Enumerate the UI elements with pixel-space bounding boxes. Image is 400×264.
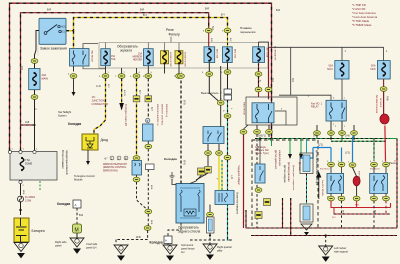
svg-text:Right quarter: Right quarter (217, 245, 232, 249)
svg-text:Передний габарит: Передний габарит (237, 165, 240, 186)
svg-text:A: A (75, 203, 77, 207)
svg-text:RELAY: RELAY (311, 106, 319, 109)
svg-text:B-R: B-R (271, 78, 274, 82)
svg-text:Fan NO.2: Fan NO.2 (320, 169, 330, 171)
svg-text:panel: panel (55, 244, 62, 248)
svg-text:Замок зажигания: Замок зажигания (40, 46, 67, 50)
svg-text:B-R: B-R (21, 66, 24, 70)
svg-text:Fan NO.3: Fan NO.3 (370, 169, 380, 171)
svg-text:W-B: W-B (257, 146, 259, 151)
svg-text:MIRROR RH): MIRROR RH) (103, 169, 118, 172)
svg-text:G: G (222, 110, 224, 112)
svg-text:40A: 40A (42, 73, 47, 77)
svg-text:B-R: B-R (276, 9, 280, 12)
svg-text:Автоматическая: Автоматическая (375, 95, 378, 114)
svg-text:Колодка: Колодка (68, 122, 81, 126)
svg-text:NOISE FILTER: NOISE FILTER (169, 52, 171, 67)
svg-text:2.0W: 2.0W (25, 199, 32, 203)
svg-text:G-W: G-W (345, 136, 351, 138)
svg-text:Instrument: Instrument (181, 243, 194, 247)
svg-text:MAIN RELAY: MAIN RELAY (243, 102, 246, 116)
svg-text:MIRROR LH): MIRROR LH) (165, 104, 167, 117)
svg-text:Module: Module (74, 178, 83, 182)
svg-text:Cowl side: Cowl side (86, 242, 98, 246)
svg-text:B-Y: B-Y (229, 38, 231, 42)
svg-text:MAIN: MAIN (42, 77, 49, 81)
svg-text:Диод: Диод (101, 138, 109, 142)
svg-text:IG1: IG1 (61, 31, 66, 34)
svg-text:зеркала: зеркала (120, 49, 132, 53)
svg-text:10A: 10A (138, 53, 143, 56)
svg-text:LH: LH (181, 250, 184, 254)
svg-text:B-R: B-R (211, 26, 214, 30)
svg-text:MIRROR HEATER LH: MIRROR HEATER LH (156, 104, 159, 126)
svg-text:15A: 15A (111, 55, 116, 58)
svg-text:B-R: B-R (9, 66, 12, 70)
svg-text:*6 TMMK Made: *6 TMMK Made (352, 23, 372, 27)
svg-text:TAIL: TAIL (111, 58, 116, 61)
svg-text:B-R: B-R (210, 38, 212, 42)
svg-text:Датчики давления: Датчики давления (287, 162, 289, 182)
svg-text:G-B(*1): G-B(*1) (258, 136, 266, 138)
svg-text:B-R: B-R (140, 9, 144, 12)
svg-text:•1*: •1* (104, 157, 107, 161)
svg-text:B-Y: B-Y (221, 14, 225, 17)
svg-text:Датчик давл. хладагента: Датчик давл. хладагента (292, 165, 294, 191)
svg-text:Колодка: Колодка (150, 241, 163, 245)
svg-text:Датчик включения вентилятора: Датчик включения вентилятора (315, 150, 318, 186)
svg-text:B-Y: B-Y (150, 107, 153, 111)
svg-text:panel LH: panel LH (86, 246, 97, 250)
svg-text:Right side: Right side (55, 240, 67, 244)
svg-text:Реле: Реле (166, 28, 174, 32)
svg-text:DOME: DOME (25, 163, 33, 166)
svg-text:W-B: W-B (150, 185, 152, 190)
svg-text:Sta Taillight: Sta Taillight (58, 110, 71, 114)
svg-text:CDS: CDS (370, 68, 376, 71)
svg-text:ALTERNATOR: ALTERNATOR (274, 46, 277, 61)
svg-text:W-B: W-B (374, 210, 376, 215)
svg-text:Выключатель: Выключатель (201, 91, 219, 95)
svg-text:AM1 40A: AM1 40A (234, 49, 237, 59)
svg-text:System: System (58, 114, 67, 118)
svg-text:W-B: W-B (136, 236, 141, 239)
svg-text:CONNECTOR: CONNECTOR (92, 102, 109, 106)
svg-text:MOTOR: MOTOR (358, 171, 360, 180)
svg-text:антенна: антенна (379, 98, 382, 108)
svg-text:A: A (165, 239, 167, 243)
svg-text:B-R: B-R (79, 214, 83, 217)
svg-text:pillar: pillar (217, 249, 223, 253)
svg-text:MIRROR: MIRROR (133, 57, 143, 59)
svg-text:W-B: W-B (150, 220, 152, 225)
svg-text:ACC: ACC (61, 26, 66, 29)
svg-text:B-Y: B-Y (107, 84, 109, 88)
svg-text:B-Y/G: B-Y/G (123, 90, 125, 96)
svg-text:L-B: L-B (230, 175, 233, 179)
svg-text:Fan M/V RELAY: Fan M/V RELAY (321, 180, 324, 196)
svg-text:TAIL RELAY: TAIL RELAY (91, 50, 94, 63)
svg-text:(Press. Type): (Press. Type) (255, 152, 269, 155)
svg-text:B-R: B-R (47, 9, 51, 12)
svg-text:L(*1): L(*1) (345, 153, 350, 155)
svg-text:To Engine Control: To Engine Control (74, 174, 95, 178)
svg-text:C-D: C-D (96, 84, 101, 88)
svg-text:(REMOTE CONTROL: (REMOTE CONTROL (161, 104, 163, 126)
svg-text:FL MAIN: FL MAIN (25, 195, 35, 199)
svg-text:M: M (75, 228, 79, 234)
svg-text:side support: side support (334, 250, 348, 254)
svg-text:предохранителей: предохранителей (65, 150, 69, 175)
svg-text:To Engine Room J/B: To Engine Room J/B (124, 104, 127, 126)
svg-text:panel brace: panel brace (181, 247, 195, 251)
svg-text:перемычки: перемычки (240, 30, 256, 34)
svg-text:Фильтр: Фильтр (169, 33, 181, 37)
svg-text:Указатель поворота: Указатель поворота (236, 192, 239, 215)
svg-text:W-B: W-B (342, 210, 344, 215)
svg-text:AM2 30A: AM2 30A (216, 49, 219, 59)
svg-text:Датчик нагрузки: Датчик нагрузки (283, 165, 286, 183)
svg-text:R: R (393, 160, 396, 162)
svg-text:G-W: G-W (313, 136, 319, 138)
svg-text:NOISE FILTER: NOISE FILTER (184, 52, 186, 67)
svg-text:L(*1): L(*1) (318, 145, 323, 147)
svg-text:B-Y: B-Y (143, 14, 147, 17)
svg-text:Left rocker: Left rocker (334, 246, 346, 250)
svg-text:B-Y: B-Y (138, 90, 141, 94)
svg-text:Колодка: Колодка (164, 157, 177, 161)
svg-text:Батарея: Батарея (32, 229, 45, 233)
svg-text:кондиционера: кондиционера (278, 150, 281, 166)
svg-text:Датчик давления: Датчик давления (274, 150, 277, 170)
svg-text:R-Y: R-Y (332, 217, 336, 219)
svg-text:Колодка: Колодка (57, 202, 70, 206)
svg-text:R-B: R-B (355, 205, 359, 207)
svg-text:Блок плавких: Блок плавких (61, 150, 65, 169)
svg-text:B-R: B-R (205, 8, 209, 11)
svg-text:B-R: B-R (291, 78, 294, 82)
svg-text:W-B: W-B (183, 160, 186, 165)
svg-text:G-B: G-B (25, 121, 30, 124)
svg-text:Задний габарит: Задний габарит (242, 210, 245, 226)
svg-text:MCU: MCU (327, 68, 333, 71)
svg-text:W-B: W-B (22, 190, 24, 195)
svg-text:HEATER: HEATER (133, 59, 142, 62)
svg-text:W-B: W-B (183, 100, 186, 105)
svg-text:J/C: J/C (92, 95, 96, 99)
svg-text:JUNCTION: JUNCTION (92, 99, 105, 103)
